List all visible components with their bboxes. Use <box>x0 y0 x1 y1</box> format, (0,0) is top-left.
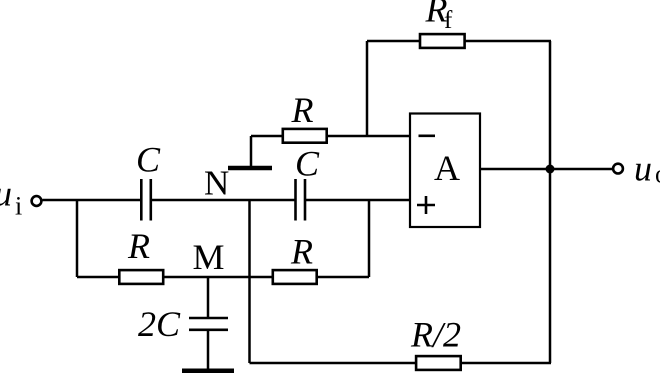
svg-text:i: i <box>15 192 22 221</box>
svg-text:A: A <box>434 148 460 188</box>
svg-text:f: f <box>444 7 453 34</box>
svg-text:R: R <box>127 226 150 266</box>
svg-text:R/2: R/2 <box>410 315 461 355</box>
svg-text:M: M <box>193 237 225 277</box>
svg-text:R: R <box>291 90 314 130</box>
svg-text:C: C <box>295 144 320 184</box>
svg-text:R: R <box>290 232 313 272</box>
svg-text:2C: 2C <box>138 304 181 344</box>
svg-text:C: C <box>136 140 161 180</box>
svg-text:u: u <box>0 174 12 214</box>
svg-text:N: N <box>204 163 229 202</box>
svg-text:o: o <box>655 160 660 189</box>
svg-text:u: u <box>634 149 652 189</box>
